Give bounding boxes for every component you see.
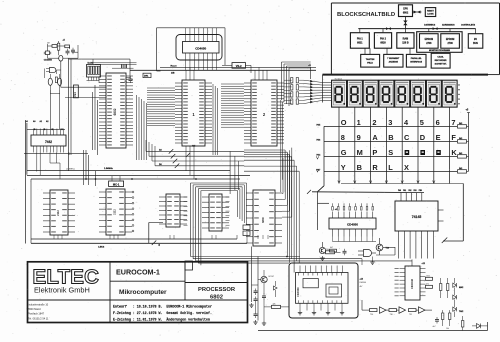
svg-text:CD4050: CD4050 [195, 46, 206, 50]
svg-text:C.BUS: C.BUS [98, 247, 105, 249]
revision table rows [113, 305, 212, 322]
keyboard left column return wire [318, 186, 325, 230]
svg-text:Industriestraße 10: Industriestraße 10 [28, 304, 49, 307]
bottom bus line B3 [196, 260, 412, 261]
7-segment display D3 [363, 80, 378, 107]
nested bus corner verticals [282, 62, 311, 106]
svg-text:BC107: BC107 [269, 276, 275, 278]
svg-text:6802: 6802 [403, 12, 409, 15]
svg-text:7: 7 [451, 118, 455, 127]
svg-text:CD4050: CD4050 [347, 223, 358, 227]
svg-text:LM3900: LM3900 [360, 282, 367, 284]
decoder 74145 [395, 193, 444, 238]
box VE1 [73, 85, 78, 98]
filter chain resistor R51 [389, 309, 397, 316]
7442 top labels [26, 120, 49, 123]
7-segment display D8 [442, 80, 457, 107]
bus bundle IC2 to PIA [213, 84, 244, 155]
svg-text:T31: T31 [409, 314, 412, 316]
resistor R60 42k [264, 303, 289, 308]
svg-text:RAM: RAM [403, 38, 408, 41]
RAM IC5 label [113, 209, 117, 215]
IC8 label [261, 217, 265, 223]
wire drop right of title block [249, 247, 253, 308]
block RAM [397, 29, 414, 49]
7-segment display D5 [395, 80, 410, 107]
svg-text:F: F [451, 133, 456, 142]
bus cross verticals [230, 151, 238, 194]
bus lines to right A/D [146, 140, 244, 168]
small boxes right of IC7 [243, 225, 250, 236]
RAM IC6 2112 [159, 194, 187, 227]
RAM bottom pin drops [54, 235, 268, 239]
buffer CD4050 top [176, 28, 225, 65]
ROM IC8 [246, 190, 282, 246]
bus wire RESET [130, 65, 316, 75]
svg-text:PARALLEL: PARALLEL [411, 57, 423, 60]
wires left of CPU [93, 77, 100, 156]
diode D7 [453, 305, 464, 317]
box VS-2 [232, 63, 246, 69]
svg-text:INTERFACE: INTERFACE [410, 60, 422, 63]
svg-text:6820: 6820 [380, 42, 386, 45]
svg-text:BLOCKSCHALTBILD: BLOCKSCHALTBILD [337, 12, 395, 18]
resistor R30 above module [326, 249, 341, 254]
svg-text:128 B: 128 B [402, 42, 409, 45]
keyboard key labels [341, 118, 458, 172]
svg-text:7 SEGMENT: 7 SEGMENT [387, 58, 400, 60]
svg-text:ANZEIGE: ANZEIGE [389, 60, 399, 63]
svg-text:100k: 100k [426, 275, 430, 277]
svg-text:T30: T30 [390, 314, 393, 316]
IC2 bottom wires [186, 146, 194, 179]
transistor T9 [319, 242, 325, 260]
bottom bus line B1 [191, 256, 301, 258]
block EPROM group monitor programm [417, 29, 462, 53]
svg-text:ADRESSBUS: ADRESSBUS [442, 24, 455, 27]
resistor R41 [426, 283, 433, 288]
display decimal dots column [458, 84, 459, 104]
wires below CD4050 [333, 237, 377, 242]
segment driver feed wire [318, 203, 337, 211]
ground below gate [370, 257, 374, 265]
buffer gate G1 [59, 55, 63, 61]
left long verticals [26, 120, 27, 244]
svg-text:3k3: 3k3 [459, 123, 462, 125]
svg-text:8: 8 [341, 133, 345, 142]
bottom bus line B4 [198, 262, 289, 264]
keyboard matrix grid wires [324, 126, 457, 186]
svg-text:CONTROLBUS: CONTROLBUS [461, 25, 476, 27]
svg-text:RESET: RESET [427, 10, 434, 12]
resistor R54 vertical [446, 310, 451, 330]
svg-text:A0: A0 [33, 120, 35, 123]
svg-text:2: 2 [372, 118, 376, 127]
svg-text:6500 Mainz: 6500 Mainz [28, 308, 42, 311]
RAM IC4 2112 [43, 190, 75, 235]
svg-text:4n7: 4n7 [433, 326, 436, 328]
title PROCESSOR 6802 [198, 287, 236, 300]
display cathode drop wires [339, 107, 450, 126]
svg-text:A15: A15 [192, 145, 195, 148]
svg-text:4k7: 4k7 [330, 247, 333, 249]
svg-text:BUS: BUS [473, 43, 478, 45]
svg-text:2708: 2708 [426, 43, 432, 45]
transistor T10 [376, 238, 390, 255]
bottom bus line B2 [193, 259, 362, 265]
7-segment display D6 [411, 80, 426, 107]
svg-text:6802: 6802 [210, 294, 223, 300]
capacitor C3 at CPU top [112, 64, 134, 68]
PIA port bus to module [244, 100, 299, 263]
block PIA 6820 [374, 29, 391, 49]
IC2 top pin wires [186, 67, 194, 80]
svg-text:2112: 2112 [113, 209, 117, 215]
module top pins [300, 266, 342, 273]
svg-text:MC-1: MC-1 [113, 182, 120, 186]
wire T10 collector [376, 247, 395, 255]
C-BUS line 2 [31, 179, 247, 243]
svg-text:M: M [357, 148, 363, 157]
IC6 left feed vertical [149, 223, 163, 244]
filter amp A2 [399, 307, 406, 314]
wire drop 2 [257, 257, 259, 321]
oscillator output verticals [50, 90, 59, 129]
capacitor C30 [433, 317, 440, 328]
resistor network RN2 [291, 78, 299, 105]
filter amp A1 [377, 307, 386, 314]
keyboard column footer wire [338, 181, 464, 184]
box DR1 [143, 73, 151, 78]
svg-text:EPROM: EPROM [446, 39, 455, 41]
svg-text:+5: +5 [335, 209, 337, 211]
wires below CD4050 top [186, 60, 217, 70]
7-segment display D2 [347, 80, 362, 107]
IC2 number label [192, 112, 195, 117]
module labels [360, 279, 367, 289]
svg-text:A2: A2 [46, 120, 48, 123]
bottom rail wire [258, 322, 488, 331]
svg-text:K: K [451, 148, 457, 157]
nested center verticals to analog [191, 183, 247, 265]
capacitor C5 [124, 77, 133, 84]
svg-text:3k3: 3k3 [459, 153, 462, 155]
bus width mark 1 [68, 152, 70, 156]
svg-text:6: 6 [436, 118, 440, 127]
svg-text:D: D [420, 133, 426, 142]
capacitor C11 [254, 297, 258, 304]
op-amp IC CD4069 [296, 273, 349, 304]
svg-text:5: 5 [420, 118, 424, 127]
bus bowtie between CPU and reset [413, 11, 422, 14]
transistor T20 [258, 270, 274, 283]
diode D8 right [472, 324, 488, 329]
grounds bottom left cluster [252, 285, 267, 325]
svg-text:B: B [388, 133, 393, 142]
resistor R1 [52, 45, 57, 48]
svg-text:Mikrocomputer: Mikrocomputer [119, 289, 167, 296]
svg-text:Y: Y [341, 163, 346, 172]
logo subtitle Elektronik GmbH [34, 286, 90, 295]
svg-text:9: 9 [357, 133, 361, 142]
svg-text:F-Zeichng : 27.12.1978 W. Ges: F-Zeichng : 27.12.1978 W. Gesamt Schltg.… [113, 311, 212, 315]
keyboard pull-up resistors 3k3 [458, 123, 469, 173]
svg-text:2112: 2112 [56, 210, 60, 216]
svg-text:A: A [372, 133, 378, 142]
svg-text:1.54MHz: 1.54MHz [104, 167, 114, 170]
svg-text:47k: 47k [426, 283, 429, 285]
svg-text:/AB: /AB [171, 72, 175, 75]
+5V rail right of keyboard [466, 109, 471, 172]
svg-text:EUROCOM-1: EUROCOM-1 [116, 268, 160, 277]
fan wires to displays [284, 80, 323, 104]
resistor R2 [57, 43, 59, 50]
svg-text:FELD: FELD [367, 63, 373, 65]
svg-text:VS-2: VS-2 [236, 64, 242, 68]
clock wire 1.8MHz [27, 169, 230, 171]
crystal Q1 [44, 51, 51, 55]
capacitor C13 [254, 312, 258, 319]
gate G2 [358, 250, 376, 257]
svg-text:S: S [388, 148, 393, 157]
diode D5 [453, 278, 464, 293]
resistor R4 [55, 77, 57, 83]
address lines [28, 304, 49, 321]
svg-text:E-Zeichng : 11.01.1979 W. Änd: E-Zeichng : 11.01.1979 W. Änderungen vor… [113, 318, 210, 322]
filter amp A3 [419, 307, 426, 314]
svg-text:CD4046: CD4046 [410, 278, 414, 289]
svg-text:CPU: CPU [403, 8, 408, 11]
RAM inter-IC wires [184, 197, 230, 225]
svg-text:O: O [341, 118, 347, 127]
+5V rail above displays [323, 75, 489, 81]
svg-text:E: E [436, 133, 441, 142]
capacitor C1 [66, 49, 70, 56]
transistor shape T2 [58, 74, 62, 90]
module feed wires from bus [293, 263, 295, 273]
svg-text:CD4069: CD4069 [296, 287, 300, 297]
svg-text:3k3: 3k3 [459, 138, 462, 140]
ROM IC2 [175, 80, 212, 146]
PIA IC3 6820 [244, 80, 284, 146]
PIA number label [263, 112, 266, 117]
svg-text:L: L [388, 163, 393, 172]
svg-text:LOGIK: LOGIK [427, 13, 434, 15]
svg-text:Postfach 1847: Postfach 1847 [28, 313, 45, 316]
74145 input labels [398, 189, 422, 192]
svg-text:4k7: 4k7 [360, 286, 363, 288]
svg-text:CASS.: CASS. [437, 56, 444, 59]
block Tastenfeld [361, 48, 380, 67]
svg-text:1: 1 [357, 118, 361, 127]
svg-text:T50: T50 [370, 314, 373, 316]
oscillator wires [45, 41, 107, 171]
svg-text:MONITOR PROGRAMM: MONITOR PROGRAMM [429, 49, 450, 52]
7442 bottom drop wires [37, 153, 60, 180]
resistor R43 vertical [447, 278, 449, 298]
7442 top junction wire [27, 128, 65, 130]
svg-text:6821: 6821 [357, 42, 363, 45]
resistor R53 vertical [442, 310, 444, 326]
module bottom pins and grounds [298, 303, 344, 315]
clock wire 1.54MHz [27, 167, 250, 176]
svg-text:DATENBUS: DATENBUS [424, 24, 436, 27]
RAM IC5 2112 [99, 189, 132, 235]
svg-text:2708: 2708 [448, 43, 454, 45]
keyboard scan bus wire PA lines [312, 191, 424, 194]
svg-text:PIA 1: PIA 1 [357, 38, 364, 41]
svg-text:CD4050: CD4050 [44, 59, 53, 62]
7442 bottom crossing wire [24, 152, 88, 154]
block diagram frame BLOCKSCHALTBILD [331, 3, 499, 75]
block 7 segment anzeige [384, 48, 403, 67]
svg-text:DR1: DR1 [144, 76, 149, 78]
diode D2 [274, 281, 278, 297]
resistor R55 vertical right [462, 316, 464, 331]
RAM select wire [31, 178, 240, 180]
reset loop wire [157, 28, 225, 71]
resistor R42 vertical [440, 278, 442, 298]
svg-text:PB0: PB0 [419, 190, 422, 192]
title Mikrocomputer [119, 289, 167, 296]
filter chain resistor R52 [409, 309, 417, 316]
verticals to RAM row [84, 150, 89, 185]
box MC-1 [109, 181, 124, 187]
C-BUS line 1 [31, 239, 237, 249]
transistor shape T1 [48, 74, 52, 90]
MC-1 wires [95, 171, 120, 186]
+5 label osc [47, 40, 66, 45]
svg-text:C: C [404, 133, 410, 142]
keyboard row labels PA5 PA6 PA4 PA7 [317, 124, 322, 172]
RAM IC4 label [56, 210, 60, 216]
74145 output column wires [399, 238, 434, 259]
wire VS-2 [222, 65, 251, 73]
svg-text:Entwurf : 18.10.1978 B. EUR: Entwurf : 18.10.1978 B. EUROCOM-1 Mikroc… [113, 305, 212, 309]
svg-text:Elektronik GmbH: Elektronik GmbH [34, 286, 90, 295]
svg-text:(1.8MHz): (1.8MHz) [66, 169, 75, 171]
+5 feed at fan [308, 65, 311, 79]
block cassette schnittstelle [431, 52, 450, 68]
title EUROCOM-1 [116, 268, 160, 277]
IC8 right wires up [282, 148, 292, 218]
diode D6 [453, 293, 457, 305]
block parallel interface [406, 48, 426, 67]
block PIA 6821 [350, 29, 369, 49]
svg-text:3k3: 3k3 [459, 168, 462, 170]
svg-text:P: P [372, 148, 377, 157]
7-segment display D4 [379, 80, 394, 107]
svg-text:10k: 10k [446, 328, 449, 330]
svg-text:G: G [341, 148, 347, 157]
clock loop wire [69, 59, 130, 78]
CPU clock wires [87, 59, 100, 81]
svg-text:B: B [357, 163, 362, 172]
svg-text:R: R [372, 163, 378, 172]
svg-text:10k: 10k [326, 249, 329, 251]
CPU IC1 6802 [99, 73, 133, 148]
resistor R24 [330, 247, 337, 252]
CPU label [113, 108, 117, 115]
svg-text:TASTEN: TASTEN [366, 58, 375, 61]
right side loop wire [442, 184, 464, 243]
svg-text:PROCESSOR: PROCESSOR [198, 287, 236, 293]
capacitor C12 [262, 283, 266, 300]
capacitor C21 above module [343, 249, 347, 256]
filter chain resistor R50 [370, 309, 378, 316]
block CPU 6802 [399, 5, 413, 17]
svg-text:3: 3 [388, 118, 392, 127]
display anode entry wires [323, 75, 332, 103]
PIA top pin wires [255, 67, 267, 80]
7-segment display D7 [426, 80, 441, 107]
svg-text:I/O: I/O [474, 39, 477, 41]
label CD4050 [44, 59, 53, 62]
svg-text:EPROM: EPROM [425, 39, 434, 41]
svg-text:6830: 6830 [261, 217, 265, 223]
resistor R3 [65, 45, 70, 48]
bus wire NMI [160, 66, 316, 68]
keyboard return arrows [307, 156, 319, 194]
svg-text:A1: A1 [40, 120, 42, 123]
PLL CD4046 [395, 260, 426, 301]
svg-text:6802: 6802 [113, 108, 117, 115]
svg-text:SCHNITTST.: SCHNITTST. [435, 63, 447, 65]
resistor pack RP1 [87, 63, 101, 77]
ELTEC logo [33, 266, 100, 289]
gate G3 [46, 68, 56, 73]
svg-text:PIA 2: PIA 2 [380, 38, 387, 41]
buffer CD4050 [329, 203, 376, 236]
title block frame [28, 261, 248, 323]
svg-text:VE1: VE1 [73, 91, 77, 96]
svg-text:Tel. 06131/2 54 11: Tel. 06131/2 54 11 [28, 317, 49, 320]
filter wires [362, 300, 432, 310]
svg-text:42k: 42k [273, 303, 276, 305]
system bus line [358, 17, 475, 31]
address data bus bundle CPU to IC2 [137, 88, 176, 160]
svg-text:RECORDER: RECORDER [435, 60, 447, 62]
resistor R40 [426, 275, 433, 280]
svg-text:22p: 22p [124, 81, 127, 83]
decoder 7442 [31, 129, 66, 153]
svg-text:7442: 7442 [45, 140, 52, 144]
block IO bus [468, 29, 483, 49]
block reset logic [425, 8, 435, 17]
capacitor C10 [254, 289, 258, 296]
RAM IC7 2112 [202, 194, 229, 231]
svg-text:X: X [404, 163, 409, 172]
IC5 output bubbles [132, 191, 134, 232]
cassette interface module box [289, 263, 358, 318]
capacitor C2 [71, 48, 75, 55]
wire pair to bundle [93, 63, 137, 65]
7-segment display D1 [332, 80, 347, 107]
svg-text:74145: 74145 [412, 215, 422, 219]
